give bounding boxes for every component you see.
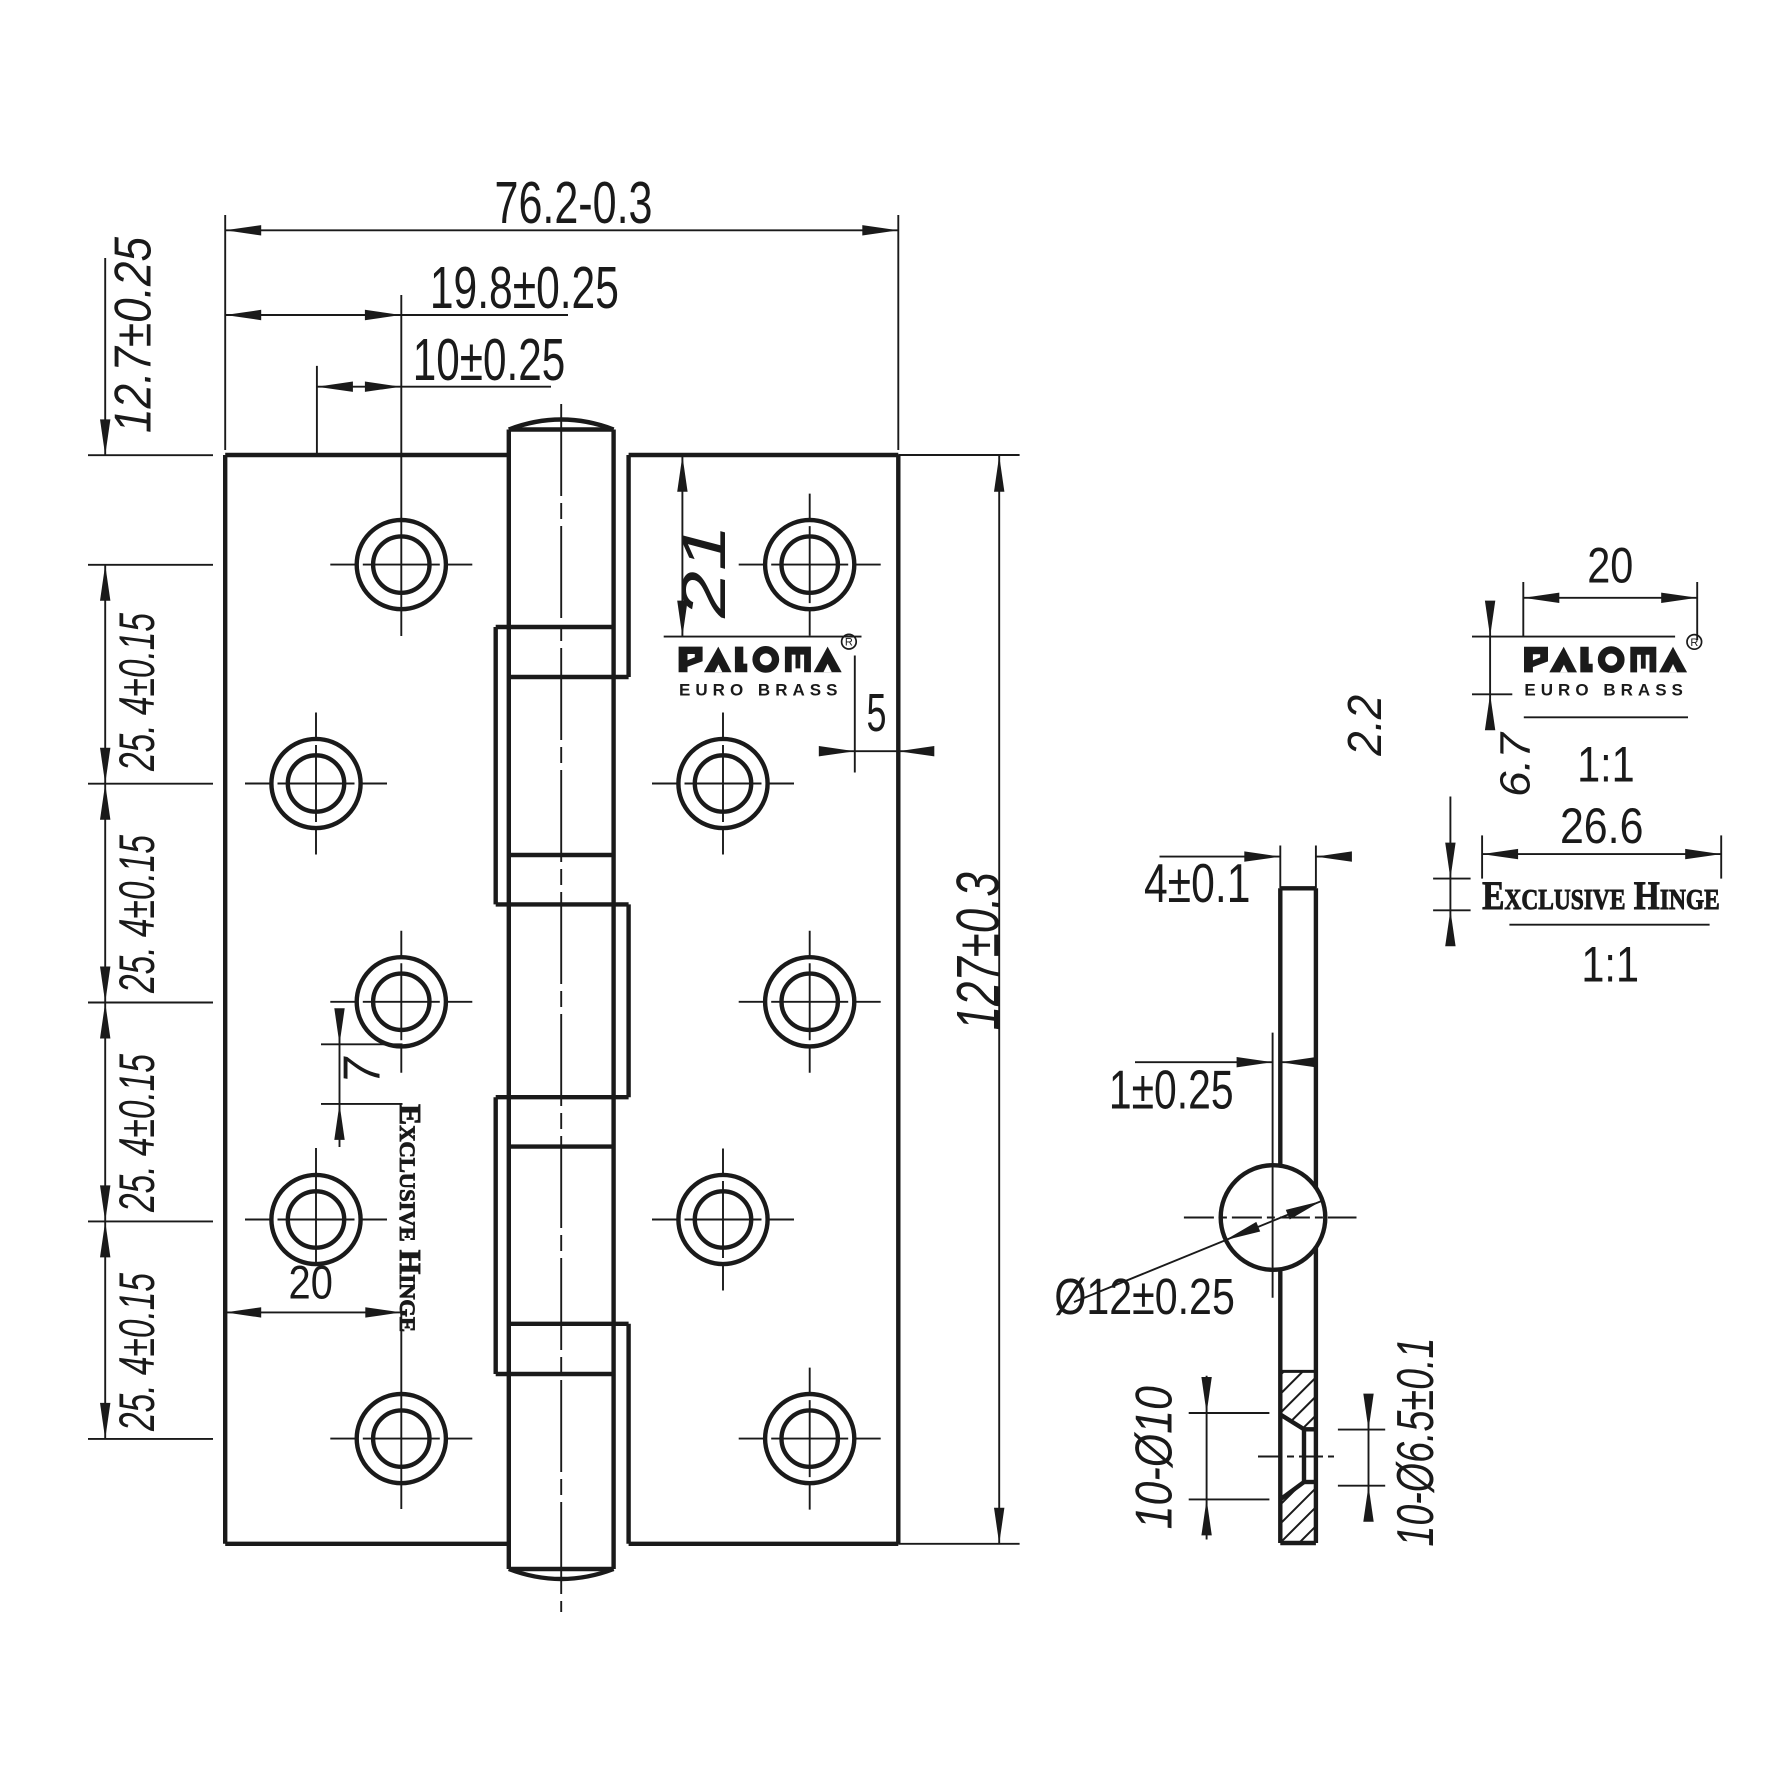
wire barrel left edge <box>507 430 511 1570</box>
svg-text:12.7±0.25: 12.7±0.25 <box>105 236 163 433</box>
dimension 19.8±0.25 <box>225 255 619 321</box>
dimension 7 <box>321 1008 403 1147</box>
wire plate right edge <box>896 455 900 1544</box>
svg-text:10-Ø6.5±0.1: 10-Ø6.5±0.1 <box>1387 1338 1445 1547</box>
dimension 6.7 <box>1472 601 1675 797</box>
svg-text:20: 20 <box>289 1255 333 1308</box>
pin reference line <box>1272 1033 1274 1298</box>
barrel / knuckle column <box>496 404 629 1612</box>
wire leaf bottom edge <box>1280 1541 1316 1545</box>
pin center line <box>560 404 562 1612</box>
wire pin bottom cap line <box>509 1567 614 1571</box>
svg-text:25. 4±0.15: 25. 4±0.15 <box>109 1273 165 1432</box>
hole 9 <box>652 1149 794 1291</box>
svg-text:2.2: 2.2 <box>1339 695 1392 757</box>
hole 5 <box>330 1304 472 1509</box>
svg-text:76.2-0.3: 76.2-0.3 <box>495 170 653 236</box>
hole 6 <box>739 494 881 636</box>
hole 2 <box>245 713 387 855</box>
dimension 20 <box>225 1255 401 1317</box>
countersunk hole section profile <box>1258 1371 1334 1499</box>
svg-text:25. 4±0.15: 25. 4±0.15 <box>109 1054 165 1213</box>
wire leaf right edge lower <box>1314 1247 1318 1544</box>
wire plate top edge left <box>225 453 509 457</box>
hole 1 <box>330 295 472 636</box>
wire left leaf offset edge 1 <box>494 627 498 904</box>
wire countersink lower seat <box>1304 1480 1316 1484</box>
svg-text:21: 21 <box>670 524 739 619</box>
left chain dimension line <box>100 258 110 1439</box>
pin bottom cap arc <box>509 1569 614 1579</box>
dimension 10-Ø6.5±0.1 <box>1338 1338 1445 1547</box>
svg-text:25. 4±0.15: 25. 4±0.15 <box>109 613 165 772</box>
wire plate bottom edge right <box>629 1542 899 1546</box>
svg-text:1:1: 1:1 <box>1581 936 1639 992</box>
dimension 10-Ø10 <box>1126 1376 1270 1540</box>
svg-text:20: 20 <box>1587 538 1633 594</box>
svg-text:10±0.25: 10±0.25 <box>413 327 566 393</box>
wire right leaf offset edge 2 <box>626 904 630 1097</box>
hole center line <box>1258 1456 1334 1458</box>
wire hole wall <box>1302 1429 1306 1482</box>
wire leaf top edge <box>1280 886 1316 890</box>
small text-height dimension <box>1433 797 1471 947</box>
wire plate top edge right <box>629 453 899 457</box>
wire countersink lower chamfer <box>1280 1482 1304 1500</box>
logo PALOMA EURO BRASS (scale block) <box>1524 635 1702 700</box>
wire right leaf offset edge 3 <box>626 1324 630 1544</box>
wire knuckle gap4 lower <box>496 1372 614 1376</box>
svg-text:7: 7 <box>334 1056 392 1084</box>
svg-text:19.8±0.25: 19.8±0.25 <box>430 255 619 321</box>
knuckle circle (side view) <box>1221 1165 1326 1270</box>
dimension 20 (logo width) <box>1523 538 1697 640</box>
wire leaf left edge lower <box>1278 1269 1282 1544</box>
svg-text:Ø12±0.25: Ø12±0.25 <box>1054 1268 1235 1325</box>
svg-text:1:1: 1:1 <box>1577 736 1635 792</box>
dimension 26.6 <box>1482 798 1721 878</box>
dimension 5 <box>819 656 935 773</box>
dimension 127±0.3 <box>898 455 1019 1544</box>
wire knuckle gap4 upper <box>509 1322 629 1326</box>
logo PALOMA EURO BRASS (front view) <box>679 634 857 699</box>
rule under logo <box>1524 716 1688 718</box>
wire leaf left edge upper <box>1278 888 1282 1167</box>
dimension 1±0.25 <box>1109 1057 1316 1121</box>
svg-text:10-Ø10: 10-Ø10 <box>1126 1386 1184 1529</box>
dimension 4±0.1 <box>1144 846 1352 915</box>
svg-text:127±0.3: 127±0.3 <box>944 872 1011 1030</box>
wire leaf right edge upper <box>1314 888 1318 1188</box>
left dimension chain extension lines <box>88 455 213 1439</box>
wire pin top cap line <box>509 427 614 431</box>
wire right leaf offset edge 1 <box>626 455 630 677</box>
wire section break line <box>1280 1370 1316 1373</box>
wire knuckle gap3 lower <box>509 1144 614 1148</box>
front view: hinge leaf plates <box>225 455 898 1544</box>
svg-text:5: 5 <box>867 683 887 743</box>
svg-text:EURO BRASS: EURO BRASS <box>1524 681 1683 700</box>
dimension 76.2-0.3 <box>225 170 898 450</box>
wire plate bottom edge left <box>225 1542 509 1546</box>
side view: leaf cross-section <box>1280 888 1316 1543</box>
hole 3 <box>330 931 472 1073</box>
dimension 21 <box>664 456 862 637</box>
hole 8 <box>739 931 881 1073</box>
wire left leaf offset edge 2 <box>494 1097 498 1374</box>
svg-text:6.7: 6.7 <box>1491 731 1539 797</box>
wire knuckle gap1 lower <box>509 675 629 679</box>
wire knuckle gap2 upper <box>509 853 614 857</box>
hole 7 <box>652 713 794 855</box>
svg-text:R: R <box>845 637 853 649</box>
wire knuckle gap1 upper <box>496 625 614 629</box>
svg-text:4±0.1: 4±0.1 <box>1144 852 1251 914</box>
wire countersink upper seat <box>1304 1427 1316 1431</box>
hole 10 <box>739 1368 881 1510</box>
pin top cap arc <box>509 420 614 430</box>
svg-text:1±0.25: 1±0.25 <box>1109 1059 1234 1121</box>
wire plate left edge <box>223 455 227 1544</box>
wire barrel right edge <box>611 430 615 1570</box>
svg-text:26.6: 26.6 <box>1560 798 1644 854</box>
svg-text:Exclusive Hinge: Exclusive Hinge <box>1482 873 1720 918</box>
dimension 10±0.25 <box>317 327 565 455</box>
wire knuckle gap2 lower <box>496 902 629 906</box>
side view horizontal center line <box>1184 1217 1357 1219</box>
wire countersink upper chamfer <box>1280 1415 1304 1430</box>
svg-text:25. 4±0.15: 25. 4±0.15 <box>109 835 165 994</box>
rule under Exclusive Hinge <box>1509 924 1709 926</box>
svg-text:EURO BRASS: EURO BRASS <box>679 680 838 699</box>
wire knuckle gap3 upper <box>496 1095 629 1099</box>
hole 4 <box>245 1148 387 1264</box>
dimension Ø12±0.25 leader <box>1054 1200 1324 1325</box>
svg-text:Exclusive Hinge: Exclusive Hinge <box>393 1104 428 1332</box>
